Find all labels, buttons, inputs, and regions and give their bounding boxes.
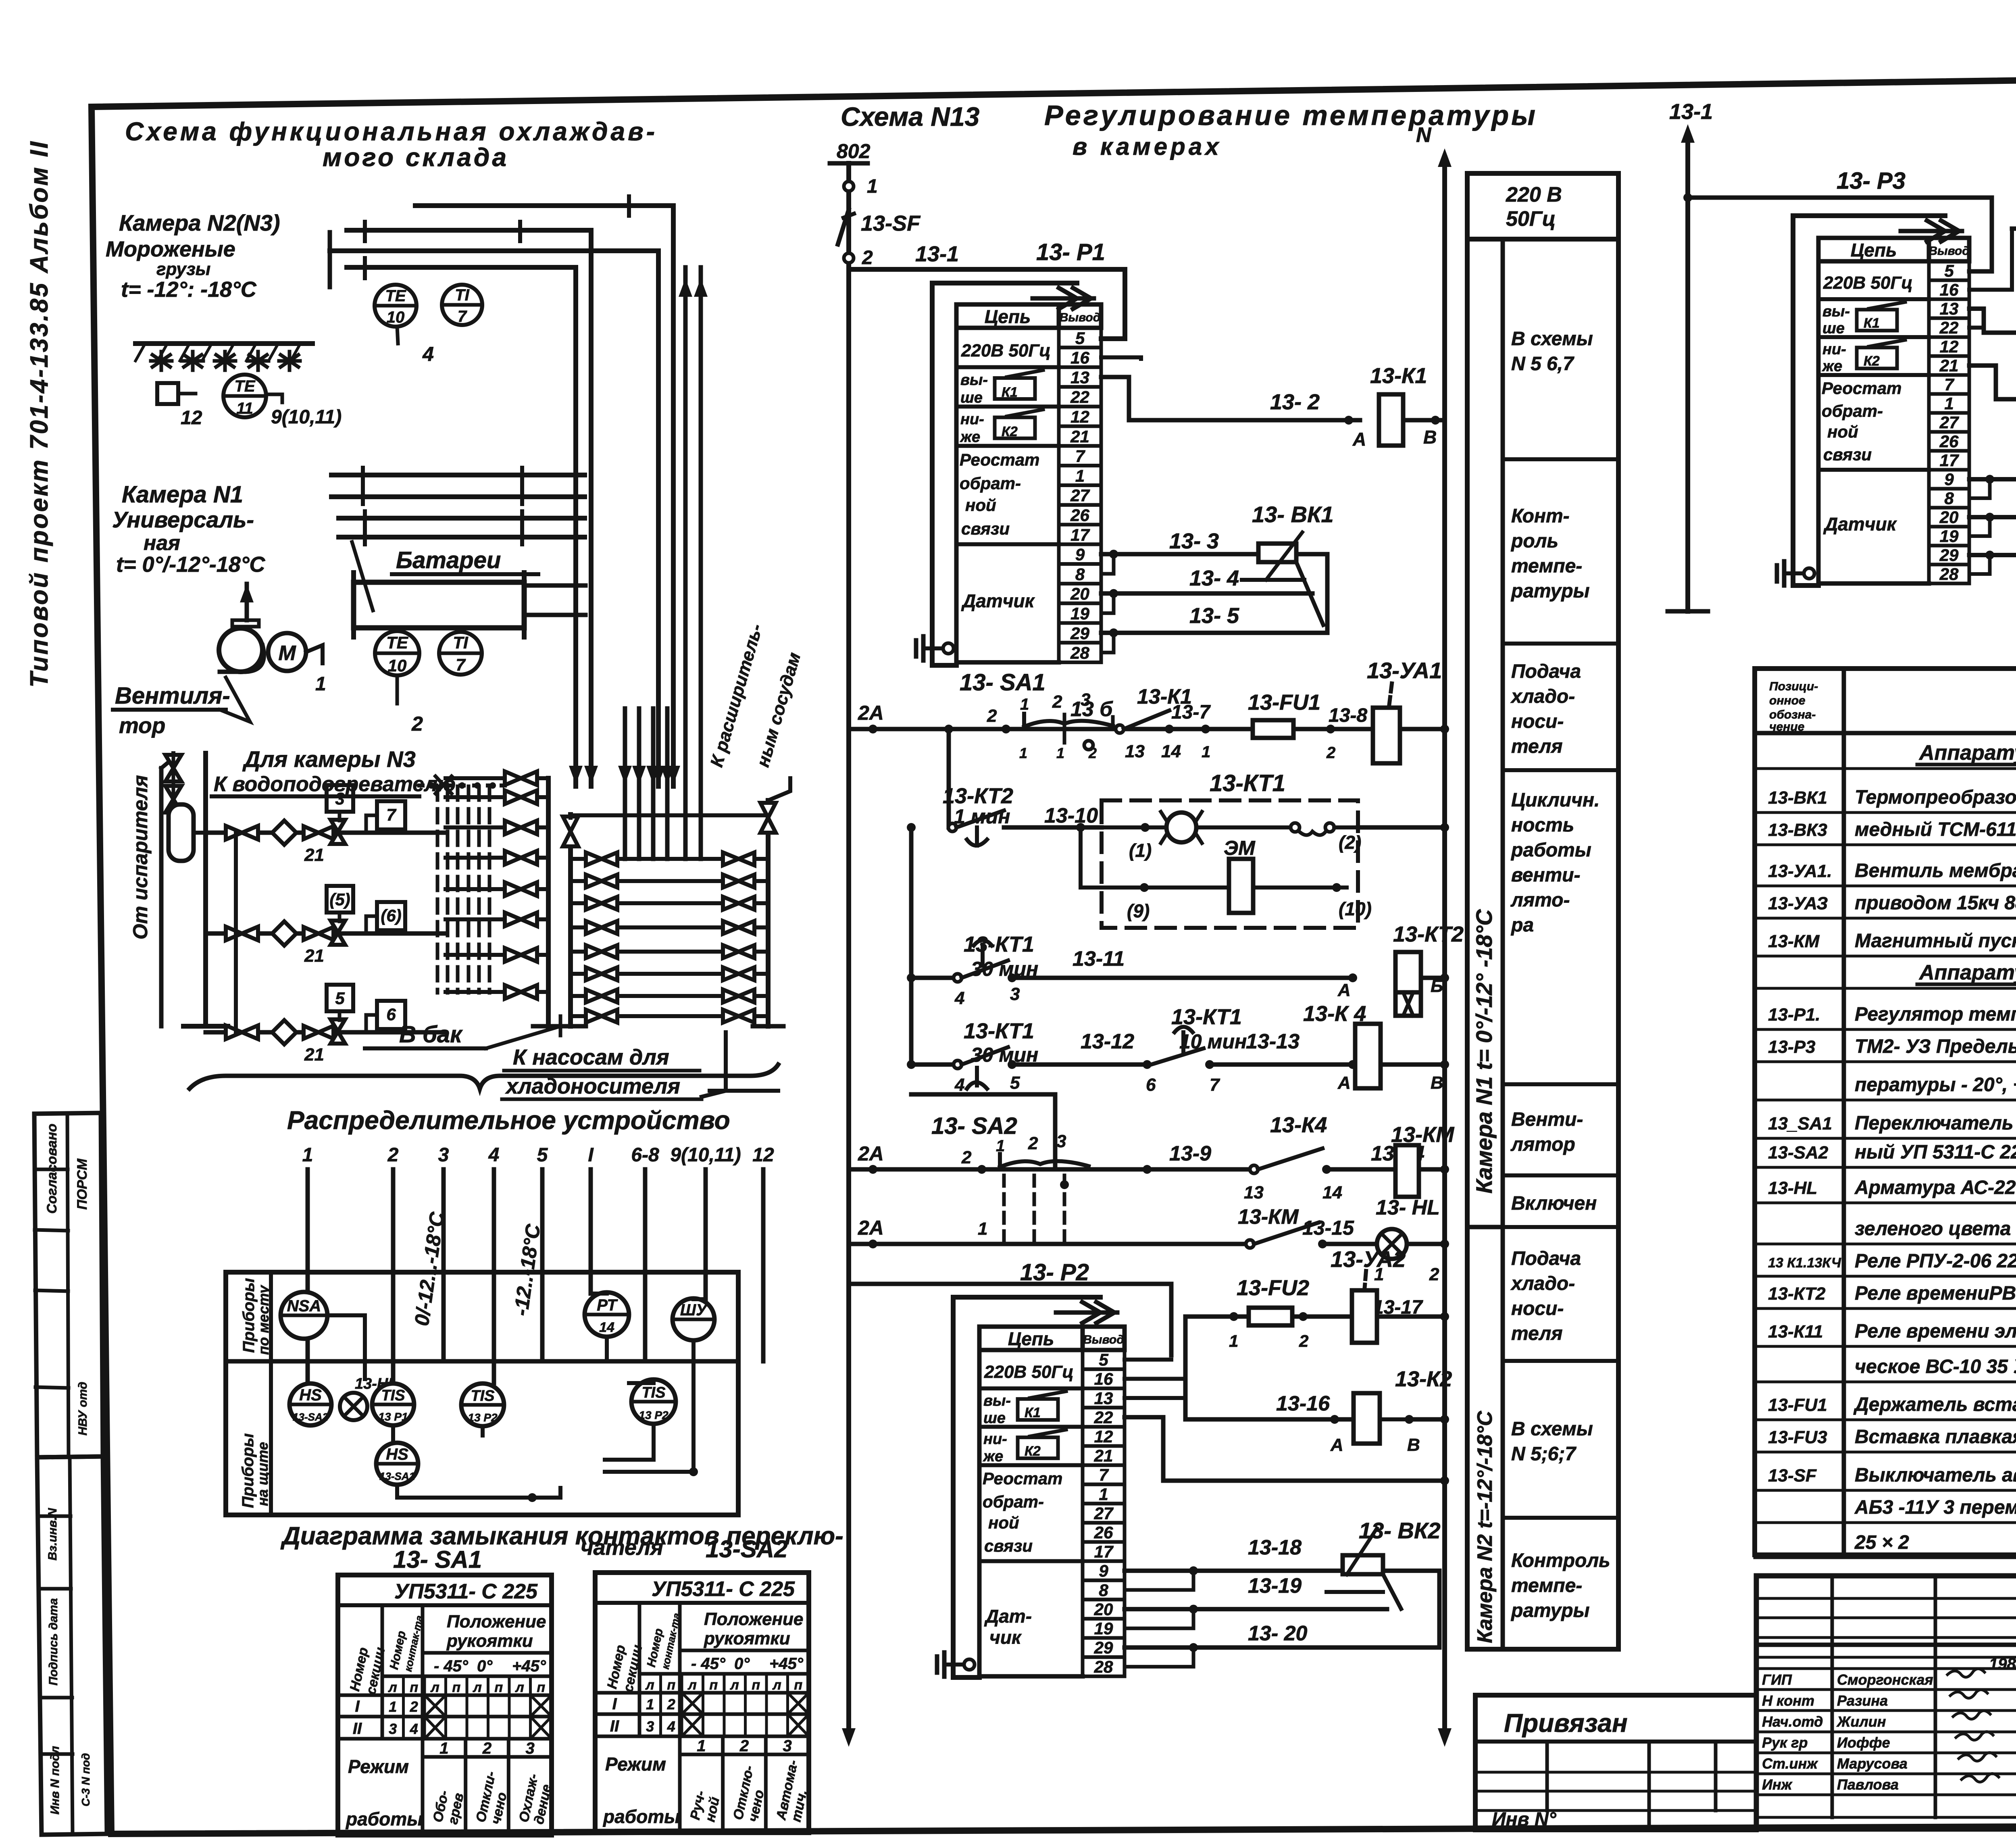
- svg-text:1: 1: [1202, 743, 1210, 761]
- function column header 220V: [1467, 173, 1618, 239]
- svg-text:В бак: В бак: [399, 1021, 463, 1048]
- wire 13-18 to sensor BK2: [1125, 1536, 1343, 1575]
- svg-text:Универсаль-: Универсаль-: [112, 507, 254, 532]
- svg-text:Распределительное устройство: Распределительное устройство: [287, 1106, 730, 1135]
- svg-text:Подпись дата: Подпись дата: [47, 1598, 60, 1685]
- parts row 3: [1755, 819, 2016, 845]
- parts row 7: [1755, 961, 2016, 988]
- svg-text:Привязан: Привязан: [1504, 1708, 1628, 1738]
- svg-text:802: 802: [837, 140, 871, 163]
- svg-text:ТI: ТI: [455, 286, 469, 304]
- KT1 output contact (2): [1291, 823, 1449, 853]
- parts row 22: [1755, 1497, 2016, 1523]
- svg-text:чателя: чателя: [581, 1535, 663, 1560]
- svg-text:9: 9: [1099, 1561, 1108, 1580]
- svg-text:4: 4: [422, 343, 434, 365]
- svg-text:Позици-: Позици-: [1769, 680, 1818, 693]
- svg-text:13-КТ2: 13-КТ2: [943, 784, 1013, 808]
- svg-text:работы: работы: [345, 1808, 423, 1829]
- wire PT down to TIS: [605, 1337, 609, 1361]
- svg-text:К1: К1: [1025, 1405, 1041, 1421]
- time relay coil 13-KT2: [1393, 922, 1464, 1016]
- svg-text:обрат-: обрат-: [1822, 401, 1883, 420]
- svg-text:НВУ отд: НВУ отд: [76, 1382, 90, 1435]
- svg-text:13-КТ1: 13-КТ1: [964, 1019, 1034, 1043]
- svg-text:0°: 0°: [477, 1657, 493, 1675]
- switch 13-SA1: [960, 669, 1113, 761]
- solenoid valve 13-УА2: [1331, 1246, 1449, 1343]
- svg-text:Вентиль мембранный с электрома: Вентиль мембранный с электромагнитным: [1855, 860, 2016, 881]
- svg-text:13-9: 13-9: [1169, 1142, 1211, 1165]
- wire 13-3 to sensor: [1101, 529, 1258, 558]
- label К расширительным сосудам (rotated): [707, 622, 805, 769]
- svg-text:Термопреобразователь сопротив: Термопреобразователь сопротивления: [1855, 787, 2016, 808]
- svg-text:же: же: [960, 429, 980, 446]
- instrument TI 7 (camera N1): [439, 632, 482, 675]
- svg-text:л: л: [730, 1677, 739, 1693]
- svg-text:2: 2: [739, 1737, 749, 1755]
- svg-text:Магнитный пускатель: Магнитный пускатель: [1855, 930, 2016, 952]
- camera N2 ceiling pipe 4: [347, 267, 576, 786]
- svg-text:чение: чение: [1769, 720, 1804, 733]
- svg-text:ной: ной: [988, 1513, 1019, 1532]
- circuit breaker 13-SF: [838, 210, 921, 244]
- fuse 13-FU3: [2012, 196, 2016, 264]
- sub-bus rung2 to rung4: [909, 827, 914, 1065]
- svg-text:на щите: на щите: [254, 1442, 271, 1506]
- parts row 1: [1755, 741, 2016, 769]
- svg-text:УП5311- С 225: УП5311- С 225: [652, 1577, 795, 1601]
- svg-text:II: II: [353, 1720, 362, 1738]
- svg-text:13-SA2: 13-SA2: [1768, 1143, 1829, 1163]
- svg-text:Режим: Режим: [605, 1754, 666, 1775]
- pipe tick marks: [363, 222, 367, 241]
- svg-text:ГИП: ГИП: [1762, 1671, 1792, 1688]
- instrument ШУ: [673, 1298, 714, 1340]
- svg-text:16: 16: [1940, 280, 1959, 299]
- svg-text:13-SA2: 13-SA2: [706, 1535, 787, 1563]
- relay coil 13-K2: [1354, 1367, 1452, 1455]
- svg-text:темпе-: темпе-: [1511, 1575, 1582, 1596]
- svg-text:ни-: ни-: [983, 1431, 1007, 1448]
- parts row 6: [1755, 930, 2016, 956]
- svg-text:26: 26: [1939, 432, 1959, 451]
- time relay 13-KT1 dashed box: [1102, 770, 1358, 928]
- signature grid: [1756, 1576, 2016, 1829]
- privyazan box: [1475, 1695, 1756, 1830]
- svg-text:Н конт: Н конт: [1762, 1692, 1814, 1709]
- svg-text:1: 1: [646, 1696, 654, 1713]
- svg-text:13-FU2: 13-FU2: [1237, 1276, 1309, 1300]
- svg-text:13- 2: 13- 2: [1270, 390, 1320, 414]
- svg-text:9(10,11): 9(10,11): [271, 406, 342, 428]
- svg-text:12: 12: [1070, 407, 1089, 426]
- label Для камеры N3 / К водоподогревателю: [212, 746, 506, 796]
- svg-text:обрат-: обрат-: [983, 1492, 1044, 1511]
- svg-text:13-16: 13-16: [1276, 1392, 1330, 1415]
- svg-text:220В 50Гц: 220В 50Гц: [1823, 273, 1913, 293]
- distribution row 1: [206, 785, 446, 865]
- svg-text:1: 1: [315, 673, 326, 695]
- svg-text:же: же: [1822, 358, 1842, 375]
- wire 13-4: [1101, 554, 1312, 613]
- svg-text:Цикличн.: Цикличн.: [1511, 790, 1599, 811]
- wire P3 pin16 stub: [1969, 229, 2012, 290]
- parts row 2: [1755, 787, 2016, 813]
- wire 13-19: [1125, 1571, 1387, 1628]
- svg-text:Разина: Разина: [1837, 1692, 1888, 1709]
- svg-text:ра: ра: [1510, 915, 1534, 936]
- svg-text:1: 1: [1020, 696, 1029, 713]
- svg-text:12: 12: [1094, 1427, 1113, 1446]
- instrument TI 7 (camera N2): [442, 285, 482, 325]
- svg-text:ше: ше: [1822, 320, 1845, 337]
- parts table: [1755, 669, 2016, 1555]
- signature row Инж: [1762, 1773, 1999, 1793]
- svg-text:М: М: [278, 642, 296, 665]
- svg-text:Типовой проект 701-4-133.85 А: Типовой проект 701-4-133.85 Альбом II: [25, 140, 53, 688]
- svg-text:грузы: грузы: [156, 259, 210, 279]
- svg-text:1: 1: [1229, 1331, 1238, 1350]
- svg-text:13-К11: 13-К11: [1768, 1322, 1823, 1342]
- parts row 10: [1755, 1074, 2016, 1100]
- svg-text:13-УА1: 13-УА1: [1367, 658, 1442, 683]
- label Батареи: [352, 542, 538, 610]
- node 2A rung6: [858, 1217, 884, 1248]
- svg-text:Вывод: Вывод: [1929, 244, 1970, 258]
- svg-text:в камерах: в камерах: [1073, 133, 1222, 160]
- svg-text:6: 6: [386, 1005, 396, 1024]
- instrument NSA: [281, 1292, 327, 1339]
- svg-text:ни-: ни-: [960, 411, 984, 428]
- svg-text:2А: 2А: [858, 702, 884, 724]
- magnetic starter coil 13-KM: [1391, 1123, 1454, 1197]
- ground at 13-P2: [944, 1663, 966, 1667]
- svg-text:Дат-: Дат-: [984, 1606, 1032, 1627]
- svg-text:0°: 0°: [734, 1655, 750, 1673]
- svg-text:Цепь: Цепь: [1008, 1328, 1054, 1349]
- svg-text:л: л: [515, 1680, 524, 1695]
- svg-text:пературы - 20°, +20°С. Вариан: пературы - 20°, +20°С. Вариант А: [1855, 1074, 2016, 1096]
- svg-text:Иоффе: Иоффе: [1837, 1734, 1890, 1751]
- right valve column: [702, 852, 768, 1023]
- svg-text:5: 5: [1099, 1350, 1108, 1369]
- svg-text:вы-: вы-: [983, 1392, 1011, 1409]
- svg-text:7: 7: [1210, 1075, 1220, 1095]
- camera N2 ceiling pipe 3: [330, 251, 658, 786]
- svg-text:13-13: 13-13: [1246, 1030, 1300, 1053]
- signature row Н конт: [1762, 1690, 1987, 1709]
- parts row 21: [1755, 1465, 2016, 1490]
- ground surface hatch: [135, 344, 312, 370]
- svg-text:4: 4: [410, 1721, 418, 1737]
- svg-text:л: л: [388, 1680, 397, 1695]
- wire 13-5: [1101, 554, 1327, 652]
- svg-text:4: 4: [954, 1075, 964, 1095]
- svg-text:В: В: [1423, 427, 1437, 448]
- svg-text:Аппаратура по месту: Аппаратура по месту: [1918, 741, 2016, 765]
- svg-text:2: 2: [1028, 1133, 1038, 1153]
- svg-text:20: 20: [1070, 584, 1089, 603]
- svg-text:8: 8: [1099, 1581, 1108, 1600]
- svg-text:(1): (1): [1129, 840, 1152, 861]
- stamp column group 1 (Согласовано): [34, 1113, 103, 1457]
- svg-text:2: 2: [410, 1698, 418, 1715]
- svg-text:Согласовано: Согласовано: [44, 1123, 60, 1214]
- svg-text:Регулятор температуры микроэле: Регулятор температуры микроэлектронный: [1855, 1004, 2016, 1025]
- wire 13-2 to relay 13-K1: [1101, 377, 1360, 425]
- svg-text:3: 3: [646, 1718, 654, 1735]
- label 13-KT1 30min rung3: [964, 932, 1038, 980]
- svg-text:3: 3: [1010, 984, 1020, 1004]
- svg-text:13: 13: [1070, 368, 1089, 387]
- instrument TIS 13-P2a: [461, 1383, 504, 1426]
- left valve column on collector: [446, 771, 548, 999]
- svg-text:13- P1: 13- P1: [1036, 239, 1105, 265]
- svg-text:Вставка плавкая 1А ВП36-1: Вставка плавкая 1А ВП36-1: [1855, 1426, 2016, 1448]
- svg-text:теля: теля: [1511, 736, 1562, 757]
- svg-text:7: 7: [1075, 447, 1085, 466]
- svg-text:26: 26: [1094, 1523, 1113, 1542]
- svg-text:12: 12: [752, 1144, 774, 1166]
- svg-text:Сморгонская: Сморгонская: [1837, 1671, 1933, 1688]
- svg-text:5: 5: [335, 989, 345, 1008]
- svg-text:HS: HS: [299, 1386, 322, 1404]
- svg-text:Датчик: Датчик: [961, 590, 1035, 611]
- svg-text:13- SA1: 13- SA1: [960, 669, 1045, 696]
- fan motor M 1: [268, 633, 326, 695]
- signature row Ст.инж: [1762, 1752, 1996, 1772]
- ground at 13-P1: [923, 646, 946, 650]
- svg-text:темпе-: темпе-: [1511, 556, 1582, 577]
- panel box Приборы: [226, 1272, 738, 1515]
- signature row Рук гр: [1762, 1731, 1993, 1751]
- title Диаграмма замыкания контактов: [280, 1522, 843, 1560]
- svg-text:Реле времениРВП72-3222-00У4 2: Реле времениРВП72-3222-00У4 220В 50Гц: [1855, 1283, 2016, 1304]
- svg-text:п: п: [794, 1677, 802, 1693]
- svg-text:п: п: [452, 1680, 460, 1695]
- function cell 5: [1503, 1084, 1618, 1155]
- svg-text:2: 2: [961, 1148, 972, 1167]
- label Вентилятор: [113, 677, 250, 738]
- svg-text:ЭМ: ЭМ: [1224, 837, 1256, 859]
- svg-text:Выключатель автоматический: Выключатель автоматический: [1855, 1465, 2016, 1486]
- svg-text:14: 14: [599, 1320, 614, 1335]
- temperature regulator 13-P2 terminal block: [953, 1297, 1125, 1677]
- svg-text:Контроль: Контроль: [1511, 1550, 1610, 1571]
- svg-text:Вз.инв.N: Вз.инв.N: [46, 1508, 59, 1560]
- svg-text:HS: HS: [386, 1446, 408, 1463]
- svg-text:I: I: [355, 1698, 360, 1715]
- title: Схема функциональная охлаждаемого склада: [125, 117, 658, 172]
- svg-text:Держатель вставки плавкой ДВП4: Держатель вставки плавкой ДВП4-3В: [1853, 1394, 2016, 1415]
- svg-text:6-8: 6-8: [631, 1144, 659, 1166]
- camera N2 ceiling pipe 1: [415, 206, 673, 786]
- svg-text:I: I: [612, 1695, 617, 1713]
- svg-text:+45°: +45°: [769, 1655, 804, 1673]
- svg-text:работы: работы: [602, 1806, 680, 1827]
- svg-text:1: 1: [697, 1737, 706, 1755]
- svg-text:7: 7: [458, 308, 467, 325]
- svg-text:УП5311- С 225: УП5311- С 225: [394, 1580, 538, 1603]
- svg-text:Реостат: Реостат: [960, 450, 1039, 469]
- svg-text:1: 1: [439, 1740, 448, 1757]
- svg-text:1984: 1984: [1989, 1655, 2016, 1673]
- svg-text:13 P2: 13 P2: [468, 1411, 498, 1424]
- svg-text:13-Р1.: 13-Р1.: [1768, 1005, 1820, 1025]
- svg-text:13-FU1: 13-FU1: [1768, 1395, 1827, 1415]
- function cell 9: [1503, 1518, 1618, 1621]
- camera N2 drop arrows: [569, 766, 680, 784]
- svg-text:п: п: [709, 1677, 718, 1693]
- function cell 8: [1503, 1361, 1618, 1465]
- right bus N: [1416, 123, 1452, 1747]
- svg-text:21: 21: [1939, 356, 1959, 375]
- svg-text:13-8: 13-8: [1329, 705, 1367, 726]
- function cell 7: [1503, 1227, 1618, 1344]
- svg-text:13-К1: 13-К1: [1370, 364, 1427, 388]
- svg-text:13-11: 13-11: [1073, 947, 1125, 971]
- svg-text:13- HL: 13- HL: [1376, 1196, 1440, 1219]
- temperature regulator 13-P1 terminal block: [932, 283, 1101, 665]
- svg-text:1: 1: [1075, 466, 1085, 485]
- wire rung1: [849, 727, 1253, 731]
- solenoid valve 13-УА1: [1331, 658, 1449, 763]
- battery supply pipe pair 2: [339, 511, 585, 544]
- SA2 dashed drops: [1004, 1175, 1064, 1244]
- svg-text:Камера N2(N3): Камера N2(N3): [119, 210, 280, 235]
- svg-text:(10): (10): [1339, 898, 1372, 919]
- svg-text:зеленого цвета: зеленого цвета: [1855, 1218, 2011, 1240]
- wire col 9 to ШУ: [694, 1297, 706, 1301]
- svg-text:Ст.инж: Ст.инж: [1762, 1755, 1818, 1772]
- contact 13-KT1 10min: [1143, 1027, 1220, 1095]
- svg-text:2: 2: [862, 247, 873, 269]
- function cell 3: [1503, 644, 1618, 757]
- svg-text:13-SA1: 13-SA1: [379, 1470, 415, 1482]
- svg-text:1: 1: [867, 176, 878, 197]
- svg-text:онное: онное: [1769, 694, 1806, 707]
- svg-text:13-HL: 13-HL: [1768, 1178, 1817, 1198]
- svg-text:Павлова: Павлова: [1837, 1776, 1899, 1793]
- svg-text:вы-: вы-: [960, 372, 988, 389]
- svg-text:Батареи: Батареи: [396, 547, 501, 573]
- resistance thermometer 13-BK1: [1242, 502, 1334, 625]
- svg-text:21: 21: [304, 946, 324, 966]
- svg-text:NSA: NSA: [287, 1297, 321, 1315]
- wire TIS to HS chain: [391, 1425, 395, 1443]
- svg-text:13-1: 13-1: [915, 242, 959, 266]
- svg-text:(5): (5): [329, 890, 350, 909]
- svg-text:+45°: +45°: [512, 1657, 546, 1675]
- svg-text:220В 50Гц: 220В 50Гц: [984, 1362, 1074, 1382]
- svg-text:- 45°: - 45°: [691, 1655, 726, 1673]
- signal lamp 13-HL: [1374, 1196, 1449, 1284]
- wire 13-15: [1302, 1217, 1377, 1244]
- svg-text:220 В: 220 В: [1506, 183, 1562, 206]
- svg-text:РТ: РТ: [597, 1296, 618, 1314]
- svg-text:Цепь: Цепь: [985, 306, 1031, 327]
- svg-text:ТЕ: ТЕ: [386, 633, 409, 652]
- wire rung6: [849, 1242, 1246, 1246]
- wire 13-14: [1327, 1142, 1425, 1169]
- svg-text:13-УАЗ: 13-УАЗ: [1768, 894, 1828, 913]
- svg-text:21: 21: [1070, 427, 1089, 446]
- svg-text:13-18: 13-18: [1248, 1536, 1302, 1559]
- svg-text:ная: ная: [144, 531, 180, 555]
- svg-text:13-КТ1: 13-КТ1: [1210, 770, 1285, 796]
- label К насосам для хладоносителя: [502, 1032, 778, 1099]
- switch diagram table 13-SA1: [338, 1575, 554, 1835]
- left collector pipe: [533, 778, 564, 1026]
- resistance thermometer 13-BK2: [1327, 1518, 1441, 1609]
- manifold top header: [571, 813, 768, 817]
- parts row 16: [1755, 1283, 2016, 1308]
- svg-text:2: 2: [1429, 1265, 1439, 1284]
- relay coil 13-K4: [1303, 1002, 1449, 1093]
- svg-text:А: А: [1352, 429, 1366, 450]
- wire pin22 return loop: [1125, 1417, 1449, 1485]
- svg-text:3: 3: [389, 1721, 397, 1737]
- svg-text:Схема N13: Схема N13: [841, 102, 979, 131]
- parts row 8: [1755, 1004, 2016, 1029]
- svg-text:ный УП 5311-С 225: ный УП 5311-С 225: [1855, 1142, 2016, 1163]
- svg-text:В: В: [1407, 1435, 1420, 1455]
- svg-text:Вывод: Вывод: [1060, 311, 1101, 324]
- svg-text:22: 22: [1939, 318, 1959, 337]
- svg-text:7: 7: [456, 655, 466, 674]
- instrument TE 11 (soil): [223, 375, 342, 428]
- svg-text:10: 10: [388, 656, 407, 675]
- parts row 19: [1755, 1394, 2016, 1420]
- function cell 4: [1503, 770, 1618, 936]
- battery supply pipe pair top: [331, 468, 585, 504]
- wire 13-13: [1210, 1030, 1357, 1093]
- svg-text:13-FU3: 13-FU3: [1768, 1427, 1827, 1447]
- svg-text:13-15: 13-15: [1302, 1217, 1354, 1239]
- svg-text:3: 3: [335, 789, 344, 808]
- svg-text:13- 3: 13- 3: [1169, 529, 1219, 553]
- svg-text:28: 28: [1070, 644, 1089, 663]
- svg-text:Переключатель универсаль-: Переключатель универсаль-: [1855, 1113, 2016, 1134]
- svg-text:12: 12: [181, 407, 202, 429]
- parts row 14: [1755, 1218, 2016, 1244]
- svg-text:Цепь: Цепь: [1851, 240, 1897, 260]
- wire 13-11: [1008, 947, 1357, 1000]
- svg-text:28: 28: [1094, 1657, 1113, 1676]
- svg-text:13-КТ2: 13-КТ2: [1768, 1284, 1826, 1304]
- instrument TIS 13-P1: [372, 1383, 414, 1425]
- svg-text:10: 10: [387, 308, 405, 326]
- svg-text:носи-: носи-: [1511, 711, 1564, 732]
- panel bottom wiring: [397, 1340, 698, 1502]
- dotted junction row: [428, 782, 496, 789]
- svg-text:Камера N2 t=-12°/-18°C: Камера N2 t=-12°/-18°C: [1473, 1410, 1497, 1643]
- svg-text:А: А: [1330, 1435, 1343, 1455]
- svg-text:1: 1: [996, 1137, 1005, 1155]
- svg-text:л: л: [430, 1680, 439, 1695]
- svg-text:1: 1: [978, 1219, 987, 1239]
- svg-text:К1: К1: [1864, 316, 1880, 331]
- svg-text:8: 8: [1944, 489, 1954, 508]
- label 13-KT1 30min rung4: [964, 1019, 1038, 1066]
- fan discharge pipe with arrow: [232, 584, 259, 627]
- parts row 4: [1755, 860, 2016, 886]
- column wires down to panel: [308, 1169, 763, 1383]
- svg-text:26: 26: [1070, 506, 1089, 525]
- svg-text:13-FU1: 13-FU1: [1248, 690, 1320, 715]
- instrument HS 13-SA2: [289, 1383, 331, 1425]
